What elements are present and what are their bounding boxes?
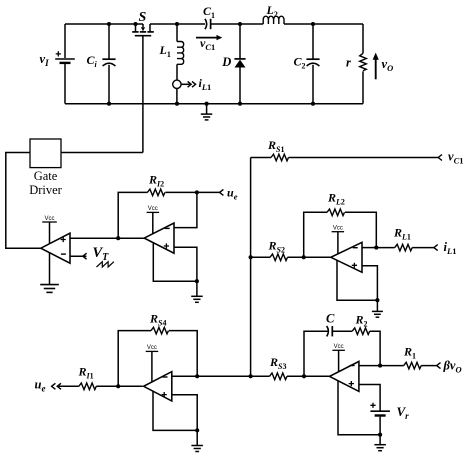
wire top rail left segment (vI to switch S drain) — [65, 23, 136, 25]
transistor S channel bars — [132, 31, 138, 33]
wire RI2 to ue stub — [165, 191, 219, 193]
wire U4 minus row to bus — [172, 375, 251, 377]
resistor RS2 — [270, 254, 288, 261]
minus input sign U4 — [163, 376, 168, 378]
marker iL1 input — [434, 245, 438, 251]
ground symbol U5 — [379, 435, 381, 445]
resistor R2 — [352, 328, 370, 335]
junction node RS4 / U4 minus — [195, 374, 199, 378]
wire probe to bottom rail — [176, 89, 178, 104]
wire L1 to current probe — [176, 64, 178, 80]
sawtooth symbol under VT — [97, 262, 114, 267]
svg-text:Driver: Driver — [29, 183, 62, 197]
wire U4 negative-rail stub — [153, 391, 197, 431]
marker ue at U2 — [220, 189, 224, 195]
wire gate lead from S down to gate driver line — [142, 36, 144, 153]
wire gate driver input from comparator — [6, 153, 41, 249]
junction node U3 output — [302, 255, 306, 259]
svg-text:Vcc: Vcc — [334, 344, 344, 350]
junction node S drain — [133, 22, 137, 26]
Vcc symbol U1 — [42, 221, 57, 223]
diode D branch wires — [239, 24, 241, 59]
junction node diode bottom — [238, 102, 242, 106]
junction node L1 top — [175, 22, 179, 26]
inductor L2 — [263, 16, 284, 24]
voltage source Vr (battery) — [370, 410, 390, 412]
wire top rail middle segment (S source to C1) — [150, 23, 205, 25]
op-amp U4 — [144, 372, 172, 401]
junction node U4 output — [116, 384, 120, 388]
capacitor Ci branch wires — [108, 24, 110, 59]
plus input sign U2 — [164, 243, 169, 248]
wire U3 minus input — [362, 247, 376, 249]
ground symbol U2 — [196, 281, 198, 296]
op-amp U5 — [330, 361, 359, 391]
junction node C2 bottom — [311, 102, 315, 106]
diode D triangle — [235, 60, 246, 68]
junction node C2 top — [311, 22, 315, 26]
svg-text:C: C — [326, 312, 335, 326]
wire C to R2 — [332, 330, 352, 332]
wire U2 plus input to ground rail — [174, 247, 197, 281]
plus sign of vI — [56, 51, 61, 56]
arrow vO — [375, 59, 377, 80]
minus input sign U3 — [353, 247, 358, 249]
ground symbol U1 — [40, 284, 59, 286]
wire summing bus vertical — [250, 158, 252, 377]
wire RS3 row — [251, 375, 270, 377]
wire U1 minus input to VT — [70, 255, 86, 257]
capacitor C2 branch wires — [312, 24, 314, 59]
op-amp U3 — [331, 242, 362, 272]
transistor S gate plate — [135, 35, 151, 37]
Vcc symbol U5 — [332, 349, 345, 351]
Vcc stub U5 — [338, 350, 340, 372]
svg-text:r: r — [346, 56, 351, 70]
Vcc symbol U3 — [332, 231, 345, 233]
op-amp U1 comparator — [41, 233, 70, 263]
ground symbol U3 — [376, 300, 378, 311]
junction node U4 ground — [195, 428, 199, 432]
junction node U2 output / U1 plus — [116, 236, 120, 240]
minus input sign U1 — [61, 253, 66, 255]
minus input sign U5 — [350, 365, 355, 367]
wire U3 plus input to ground — [362, 266, 377, 300]
wire U1 plus input to U2 output — [70, 237, 145, 239]
resistor RL1 — [395, 244, 413, 251]
svg-text:Vcc: Vcc — [333, 226, 343, 232]
junction node bus-RS3 — [249, 374, 253, 378]
wire Vr to ground rail — [379, 417, 381, 435]
svg-text:Vcc: Vcc — [148, 206, 158, 212]
wire U5 feedback riser — [304, 331, 329, 376]
svg-text:D: D — [221, 55, 231, 69]
voltage source vI (battery) — [55, 58, 75, 60]
wire U3 feedback riser — [304, 212, 327, 257]
resistor RI1 — [79, 383, 97, 390]
wire U2 feedback riser — [118, 192, 147, 238]
wire U5 negative-rail stub — [338, 380, 380, 435]
transistor S body arrow stub — [136, 23, 144, 25]
resistor RI2 — [147, 189, 165, 196]
wire R2 to minus drop — [370, 331, 380, 365]
voltage source vI branch wires — [64, 24, 66, 58]
wire RL1 row — [376, 247, 394, 249]
ground symbol U4 — [196, 430, 198, 445]
junction node L1 bottom — [175, 102, 179, 106]
wire U5 plus input to Vr — [359, 385, 380, 411]
marker ue output double chevron — [52, 383, 56, 389]
minus input sign U2 — [165, 227, 170, 229]
junction node U2 ground — [195, 279, 199, 283]
resistor R1 — [404, 362, 422, 369]
svg-text:Vcc: Vcc — [44, 216, 54, 222]
inductor L1 branch top wire — [176, 24, 178, 42]
op-amp U2 — [144, 223, 174, 253]
current probe circle iL1 — [173, 80, 181, 88]
junction node U5 ground — [378, 433, 382, 437]
svg-text:Vcc: Vcc — [147, 345, 157, 351]
wire R1 row — [380, 365, 404, 367]
capacitor Ci — [102, 58, 115, 60]
capacitor C2 — [306, 58, 319, 60]
current probe arrow iL1 — [181, 83, 190, 85]
plus input sign U4 — [162, 392, 167, 397]
junction node RI2 right / U2 minus — [195, 190, 199, 194]
Vcc stub U2 — [152, 212, 154, 233]
junction node C_i bottom — [107, 102, 111, 106]
wire U3 negative-rail stub — [337, 260, 377, 300]
junction node C_i top — [107, 22, 111, 26]
plus input sign U3 — [352, 263, 357, 268]
wire gate driver to MOSFET gate — [61, 152, 143, 154]
plus sign of Vr — [370, 403, 375, 408]
ground stub U1 — [49, 253, 51, 285]
capacitor C feedback — [327, 326, 329, 336]
resistor r — [360, 53, 367, 71]
junction node power ground — [205, 102, 209, 106]
resistor RS4 — [151, 327, 169, 334]
marker beta-vO input — [437, 363, 441, 369]
arrow vC1 — [196, 37, 217, 39]
Vcc symbol U4 — [146, 350, 159, 352]
input marker VT — [83, 253, 87, 259]
Vcc stub U3 — [337, 232, 339, 254]
gate driver box — [30, 139, 61, 168]
resistor RL2 — [327, 209, 345, 216]
Vcc stub U1 — [49, 222, 51, 244]
transistor S source stub — [149, 24, 151, 31]
wire RS1 row — [251, 157, 271, 159]
resistor RS3 — [270, 373, 288, 380]
resistor r branch wires — [362, 24, 364, 53]
svg-text:Gate: Gate — [34, 169, 58, 183]
transistor S (MOSFET) drain stub — [135, 24, 137, 31]
wire RS4 to minus drop — [169, 331, 197, 377]
wire top rail segment L2 to output corner — [284, 23, 363, 25]
wire RL2 to minus drop — [345, 212, 376, 247]
wire U4 output to RI1 — [96, 385, 142, 387]
junction node U3 minus / RL1 — [374, 246, 378, 250]
svg-text:S: S — [139, 10, 147, 25]
wire top rail segment C1 to L2 — [211, 23, 264, 25]
junction node U3 ground — [375, 298, 379, 302]
junction node U5 minus / R1 — [378, 364, 382, 368]
Vcc stub U4 — [151, 351, 153, 382]
junction node diode top — [238, 22, 242, 26]
wire U4 plus input to ground rail — [172, 395, 197, 431]
ground power rail — [206, 104, 208, 114]
wire U2 minus input drop — [174, 192, 197, 227]
inductor L1 — [177, 42, 184, 65]
wire bottom rail — [65, 103, 363, 105]
wire U4 feedback riser — [118, 331, 151, 387]
capacitor C1 — [205, 19, 207, 29]
junction node bus-RS2 — [249, 255, 253, 259]
wire RS2 row — [251, 256, 270, 258]
junction node U5 output — [302, 374, 306, 378]
resistor RS1 — [271, 154, 289, 161]
Vcc symbol U2 — [147, 211, 160, 213]
marker vC1 input — [438, 155, 442, 161]
plus input sign U5 — [349, 381, 354, 386]
wire U2 negative-rail stub — [153, 243, 197, 282]
diode D cathode bar — [234, 58, 245, 60]
wire U5 minus input — [359, 365, 380, 367]
plus input sign U1 — [61, 237, 66, 242]
